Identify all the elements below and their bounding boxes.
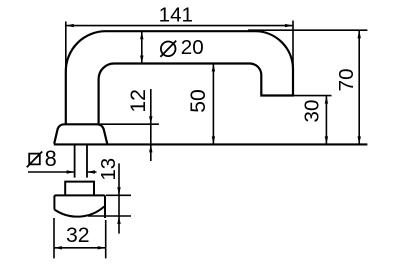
dim 70 extension line top [248, 29, 367, 31]
arrowhead 32 right [98, 246, 106, 249]
dim 70 line [358, 30, 360, 144]
dim 12 extension line (rose top extended) [100, 123, 159, 125]
svg-text:141: 141 [159, 3, 193, 26]
svg-text:32: 32 [66, 224, 90, 247]
arrowhead 70 top [358, 30, 361, 38]
dim 32 extension line right [105, 220, 107, 258]
arrowhead 50 top [212, 64, 215, 72]
dim 30 line [325, 96, 327, 145]
arrowhead 30 bottom [325, 136, 328, 144]
rose lower bottom arc [54, 207, 104, 217]
arrowhead 13 upper (down) [117, 187, 120, 195]
arrowhead square8 right (left-pointing) [87, 170, 95, 173]
dim 13 extension line upper [106, 194, 131, 196]
arrowhead 50 bottom [212, 136, 215, 144]
spindle [75, 145, 87, 177]
arrowhead 13 lower (up) [117, 216, 120, 224]
svg-text:13: 13 [97, 158, 120, 181]
svg-text:70: 70 [335, 68, 358, 91]
dim 32 extension line left [53, 218, 55, 258]
svg-text:8: 8 [45, 146, 57, 171]
spindle cap [65, 182, 94, 195]
dim 13 extension line lower [88, 215, 131, 217]
svg-text:50: 50 [187, 89, 210, 113]
diameter symbol of Ø20 [161, 42, 176, 57]
handle outer/inner contour [66, 31, 293, 124]
svg-text:30: 30 [301, 100, 324, 123]
arrowhead Ø20 bottom [140, 56, 143, 64]
arrowhead 30 top [325, 96, 328, 104]
svg-text:12: 12 [127, 89, 150, 113]
dim 30 extension line [293, 95, 332, 97]
rose (escutcheon) upper [54, 124, 107, 143]
arrowhead 70 bottom [358, 136, 361, 144]
dim 32 line [54, 247, 106, 249]
dim 13 line lower [118, 216, 120, 234]
dim Ø20 line [141, 31, 143, 63]
door surface line [54, 143, 368, 145]
arrowhead 32 left [54, 246, 62, 249]
dim 12 line upper [150, 89, 152, 144]
dim 12 line lower [150, 144, 152, 161]
arrowhead Ø20 top [140, 31, 143, 39]
svg-text:20: 20 [181, 36, 204, 59]
dim 13 line upper [118, 163, 120, 216]
dim 141 extension line left [65, 22, 67, 76]
arrowhead 141 left [66, 24, 74, 27]
dim 141 extension line right [292, 21, 294, 96]
arrowhead 12 upper (down) [149, 116, 152, 124]
square symbol of square8 [27, 152, 42, 168]
arrowhead 141 right [285, 24, 293, 27]
dim 50 line [212, 64, 214, 145]
arrowhead 12 lower (up) [149, 144, 152, 152]
dim square8 leader line [28, 171, 97, 173]
arrowhead square8 left (right-pointing) [67, 170, 75, 173]
rose lower (back plate) [54, 195, 105, 218]
dim 141 line [66, 25, 293, 27]
